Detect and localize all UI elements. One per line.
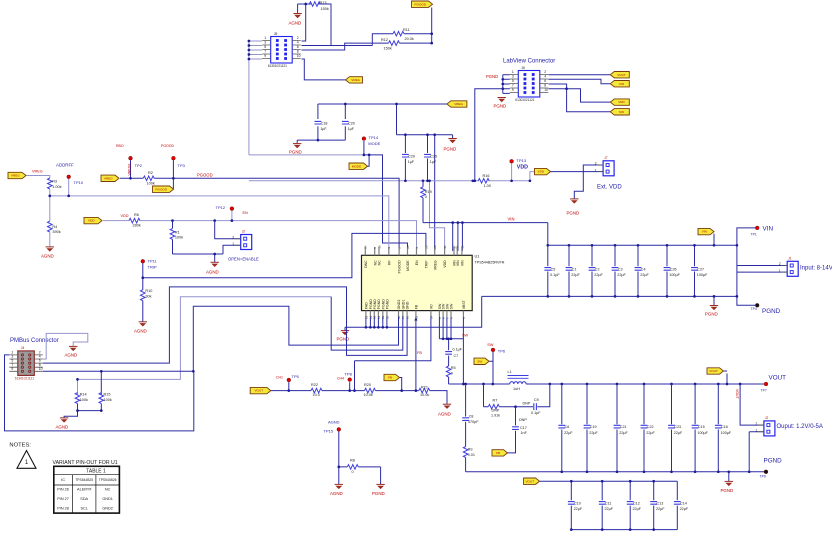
svg-text:0.1µF: 0.1µF bbox=[453, 348, 463, 352]
svg-text:PIN 27: PIN 27 bbox=[57, 497, 69, 501]
test point TP11 bbox=[141, 259, 145, 263]
svg-text:10.0k: 10.0k bbox=[364, 393, 373, 397]
resistor R15 bbox=[99, 393, 112, 404]
svg-text:DNP: DNP bbox=[492, 409, 500, 413]
svg-text:26: 26 bbox=[364, 245, 368, 249]
junction VDD pin riser bbox=[428, 179, 431, 182]
connector J1 input bbox=[779, 256, 799, 276]
svg-text:TP7: TP7 bbox=[761, 388, 767, 392]
svg-text:VIN: VIN bbox=[456, 260, 460, 266]
svg-text:Ext. VDD: Ext. VDD bbox=[597, 185, 622, 191]
svg-text:C16: C16 bbox=[721, 425, 728, 429]
capacitor C8 bbox=[462, 418, 469, 421]
svg-text:AGND: AGND bbox=[206, 269, 219, 274]
svg-text:MODE: MODE bbox=[368, 141, 380, 146]
svg-text:R20: R20 bbox=[364, 383, 371, 387]
wire J6 left PGND bus bbox=[503, 75, 510, 94]
wire TRIP line bbox=[143, 233, 426, 321]
resistor R7 bbox=[488, 404, 499, 409]
wire J6 pin2 to VOUT flag bbox=[549, 74, 611, 76]
flag VOUT output bbox=[707, 368, 724, 374]
junctions C10 row top bbox=[570, 480, 655, 483]
wire VDD flag to J7 bbox=[551, 165, 604, 199]
svg-text:VREG: VREG bbox=[11, 174, 20, 178]
ground PGND right of C25 bbox=[444, 139, 457, 152]
svg-text:C3: C3 bbox=[618, 268, 623, 272]
junctions J6 left bus bbox=[501, 78, 504, 90]
svg-text:Input: 8-14V: Input: 8-14V bbox=[800, 266, 832, 272]
svg-text:J4: J4 bbox=[21, 346, 25, 350]
wire TP15 R8 bbox=[339, 431, 381, 484]
svg-text:PGND: PGND bbox=[764, 458, 783, 465]
svg-text:10: 10 bbox=[377, 245, 381, 249]
svg-text:25: 25 bbox=[424, 245, 428, 249]
resistor R11 bbox=[393, 31, 404, 36]
svg-text:100k: 100k bbox=[80, 398, 88, 402]
flag VDD mid bbox=[535, 168, 551, 174]
wire VOUT rail bbox=[449, 371, 764, 384]
junction R7 C9 C17 bbox=[514, 405, 517, 408]
U1 bottom pin names and numbers bbox=[364, 299, 466, 319]
wire R11 R12 to PGOOD flag bbox=[302, 8, 432, 51]
connector J2 output bbox=[755, 416, 775, 436]
svg-text:10: 10 bbox=[385, 315, 389, 319]
svg-text:22µF: 22µF bbox=[619, 431, 628, 435]
capacitor C25 bbox=[424, 154, 437, 164]
svg-text:1µF: 1µF bbox=[320, 127, 327, 131]
svg-text:PGOOD: PGOOD bbox=[398, 260, 402, 274]
svg-text:J2: J2 bbox=[242, 230, 246, 234]
resistor R20 bbox=[365, 388, 376, 393]
wire J5 pin10 to VREG flag bbox=[302, 59, 346, 80]
svg-text:100k: 100k bbox=[175, 236, 183, 240]
svg-text:1µF: 1µF bbox=[430, 160, 437, 164]
svg-text:PGND: PGND bbox=[486, 74, 498, 79]
svg-text:1: 1 bbox=[779, 269, 781, 273]
svg-text:12: 12 bbox=[377, 315, 381, 319]
junction J6 wire cross bbox=[565, 87, 568, 90]
svg-text:VIN: VIN bbox=[702, 230, 707, 234]
svg-text:C8: C8 bbox=[469, 415, 474, 419]
svg-text:VBST: VBST bbox=[462, 299, 466, 309]
svg-text:SW: SW bbox=[450, 303, 454, 309]
svg-text:4: 4 bbox=[297, 41, 299, 45]
resistor R1 bbox=[170, 228, 183, 239]
test point TP12 bbox=[230, 207, 234, 211]
svg-text:10.0: 10.0 bbox=[313, 393, 320, 397]
svg-text:TP14: TP14 bbox=[369, 135, 379, 140]
connector J7 Ext VDD bbox=[595, 156, 615, 176]
wire output caps tops bbox=[562, 384, 719, 424]
svg-text:VDD: VDD bbox=[443, 260, 447, 268]
test point TP2 bbox=[129, 156, 133, 160]
capacitor C5 bbox=[544, 268, 560, 278]
svg-text:FB: FB bbox=[414, 304, 418, 309]
svg-text:7: 7 bbox=[512, 84, 514, 88]
svg-text:OPEN=ENABLE: OPEN=ENABLE bbox=[228, 256, 259, 261]
capacitor C9 bbox=[534, 403, 537, 410]
ground AGND under R21 bbox=[438, 404, 451, 416]
svg-text:R3: R3 bbox=[52, 180, 57, 184]
svg-text:VREG: VREG bbox=[104, 176, 113, 180]
flag VDD LabView bbox=[610, 99, 629, 105]
svg-text:J2: J2 bbox=[765, 416, 769, 420]
svg-text:PGND: PGND bbox=[705, 311, 718, 316]
ground PGND under C18 C20 bbox=[289, 144, 302, 155]
wire J5 left bus bbox=[249, 41, 262, 155]
resistor R14 bbox=[75, 393, 88, 404]
svg-text:R5: R5 bbox=[451, 366, 456, 370]
svg-text:VIN: VIN bbox=[763, 225, 774, 232]
svg-text:NC: NC bbox=[105, 488, 111, 492]
svg-text:TP9: TP9 bbox=[760, 475, 766, 479]
connector J5 61301021121 bbox=[262, 32, 301, 68]
svg-text:5: 5 bbox=[512, 79, 514, 83]
wire VREG rail y104 bbox=[297, 104, 452, 251]
svg-text:0: 0 bbox=[425, 195, 427, 199]
svg-text:R10: R10 bbox=[145, 289, 152, 293]
junctions PGOOD line bbox=[129, 177, 175, 180]
resistor R4 bbox=[48, 221, 61, 234]
wire VIN line bbox=[423, 223, 548, 251]
svg-text:20: 20 bbox=[433, 245, 437, 249]
svg-text:VARIANT PIN-OUT FOR U1: VARIANT PIN-OUT FOR U1 bbox=[53, 460, 118, 466]
resistor R21 bbox=[419, 388, 430, 393]
svg-text:VOUT: VOUT bbox=[525, 479, 534, 483]
ground PGND output bbox=[721, 481, 734, 492]
flag PGOOD top bbox=[412, 1, 433, 7]
wire MODE line dark part bbox=[364, 141, 408, 251]
svg-text:8: 8 bbox=[297, 50, 299, 54]
svg-text:C12: C12 bbox=[633, 502, 640, 506]
junctions C10 row bottom bbox=[570, 528, 655, 531]
svg-text:DNC: DNC bbox=[364, 260, 368, 268]
test point TP3 bbox=[172, 156, 176, 160]
svg-text:150k: 150k bbox=[321, 7, 329, 11]
svg-text:TPS544B25: TPS544B25 bbox=[75, 478, 93, 482]
svg-text:1.00k: 1.00k bbox=[52, 185, 61, 189]
resistor R8 bbox=[347, 465, 358, 470]
capacitor C13 bbox=[650, 502, 665, 512]
svg-text:J7: J7 bbox=[604, 156, 608, 160]
svg-text:22µF: 22µF bbox=[674, 431, 683, 435]
svg-text:PGND: PGND bbox=[377, 299, 381, 310]
capacitor C12 bbox=[627, 502, 642, 512]
test point TP9 bbox=[764, 470, 768, 474]
svg-text:R16: R16 bbox=[483, 174, 490, 178]
svg-text:8: 8 bbox=[544, 84, 546, 88]
svg-text:15: 15 bbox=[460, 245, 464, 249]
svg-text:R13: R13 bbox=[320, 1, 327, 5]
svg-text:RBO: RBO bbox=[116, 144, 124, 148]
wire PMBus AGND jog bbox=[43, 333, 88, 359]
svg-text:J1: J1 bbox=[788, 256, 792, 260]
test point TP8 bbox=[348, 378, 352, 382]
svg-text:R4: R4 bbox=[52, 225, 57, 229]
svg-text:30k: 30k bbox=[145, 294, 151, 298]
svg-text:C10: C10 bbox=[574, 502, 581, 506]
svg-text:PGOOD: PGOOD bbox=[156, 187, 168, 191]
svg-text:22µF: 22µF bbox=[564, 431, 573, 435]
svg-text:TP5: TP5 bbox=[292, 374, 300, 379]
svg-text:SDA: SDA bbox=[80, 497, 88, 501]
svg-text:1nF: 1nF bbox=[521, 431, 528, 435]
svg-text:VIN: VIN bbox=[619, 82, 624, 86]
wire EN line bbox=[103, 211, 417, 252]
svg-text:AGND: AGND bbox=[330, 491, 343, 496]
capacitor C20 bbox=[342, 121, 355, 131]
svg-text:1: 1 bbox=[232, 242, 234, 246]
junctions input caps bottom bbox=[546, 295, 738, 298]
svg-text:R22: R22 bbox=[311, 383, 318, 387]
svg-text:TP4: TP4 bbox=[751, 307, 757, 311]
svg-text:AGND: AGND bbox=[134, 328, 147, 333]
ground AGND top bbox=[289, 14, 302, 26]
svg-text:10: 10 bbox=[544, 88, 548, 92]
resistor R13 bbox=[309, 2, 320, 7]
svg-text:R9: R9 bbox=[468, 448, 473, 452]
ground PGND input caps bbox=[705, 306, 718, 317]
svg-text:AGND: AGND bbox=[41, 253, 54, 258]
ground PGND Ext VDD bbox=[567, 199, 580, 215]
svg-text:C6: C6 bbox=[565, 425, 570, 429]
junctions PGND pins bbox=[365, 326, 389, 329]
svg-text:3: 3 bbox=[264, 41, 266, 45]
svg-text:R2: R2 bbox=[148, 171, 153, 175]
svg-text:2: 2 bbox=[755, 422, 757, 426]
capacitor C11 bbox=[599, 502, 614, 512]
svg-text:1.00: 1.00 bbox=[484, 184, 491, 188]
wire VDD rail bbox=[249, 164, 535, 181]
wire ADDR line bbox=[27, 176, 389, 252]
svg-text:FB: FB bbox=[496, 451, 500, 455]
svg-text:TP12: TP12 bbox=[216, 205, 226, 210]
svg-text:9: 9 bbox=[264, 54, 266, 58]
svg-text:VDD: VDD bbox=[121, 214, 129, 218]
svg-text:TABLE 1: TABLE 1 bbox=[86, 468, 106, 474]
capacitor C27 bbox=[691, 268, 708, 278]
svg-text:2: 2 bbox=[297, 36, 299, 40]
wire J6 pin7 to VDD rail bbox=[475, 89, 503, 181]
svg-text:PGND: PGND bbox=[721, 488, 734, 493]
wire snubber R7 C9 bbox=[484, 384, 550, 407]
capacitor C14 bbox=[674, 502, 689, 512]
svg-text:C21: C21 bbox=[620, 425, 627, 429]
resistor R19 bbox=[421, 187, 432, 199]
wire input top bus bbox=[345, 223, 787, 331]
junctions ADDR line bbox=[48, 195, 70, 198]
svg-text:C13: C13 bbox=[657, 502, 664, 506]
svg-text:C5: C5 bbox=[551, 268, 556, 272]
svg-text:C4: C4 bbox=[641, 268, 646, 272]
svg-text:PGND: PGND bbox=[385, 299, 389, 310]
svg-text:C27: C27 bbox=[697, 268, 704, 272]
ground AGND under R14 bbox=[56, 418, 69, 429]
junctions R14 R15 bottom bbox=[76, 409, 103, 412]
svg-text:FB: FB bbox=[417, 351, 422, 355]
capacitor C26 bbox=[664, 268, 681, 278]
svg-text:EN: EN bbox=[415, 260, 419, 265]
wire PMBus ALERT loop bbox=[43, 287, 407, 363]
svg-text:1.91k: 1.91k bbox=[491, 414, 500, 418]
svg-text:ALERT#: ALERT# bbox=[77, 488, 92, 492]
svg-text:22µF: 22µF bbox=[633, 507, 642, 511]
svg-text:R11: R11 bbox=[403, 28, 410, 32]
svg-text:22µF: 22µF bbox=[656, 507, 665, 511]
svg-text:VOUT: VOUT bbox=[769, 375, 787, 382]
svg-text:CH4: CH4 bbox=[337, 376, 344, 380]
test point TP10 bbox=[67, 175, 71, 179]
ground AGND under R10 bbox=[134, 322, 147, 334]
wire J6 pin6 to SW flag bbox=[549, 84, 611, 112]
svg-text:VOUT: VOUT bbox=[254, 389, 263, 393]
svg-text:LabView Connector: LabView Connector bbox=[503, 59, 555, 65]
U1 top pin stubs bbox=[365, 247, 462, 255]
wire R14 R15 bottoms bbox=[64, 404, 101, 418]
ground AGND under J2 bbox=[206, 262, 219, 274]
resistor R22 bbox=[311, 388, 322, 393]
svg-text:10: 10 bbox=[297, 54, 301, 58]
svg-text:0: 0 bbox=[352, 470, 354, 474]
svg-text:R6: R6 bbox=[134, 213, 139, 217]
wire PMBus SCL loop bbox=[43, 306, 399, 395]
svg-text:PGND: PGND bbox=[567, 210, 580, 215]
capacitor C17 bbox=[512, 427, 519, 430]
svg-text:AGND: AGND bbox=[289, 20, 302, 25]
svg-text:10.0k: 10.0k bbox=[420, 393, 429, 397]
svg-text:TP6: TP6 bbox=[498, 349, 506, 354]
svg-text:1: 1 bbox=[755, 428, 757, 432]
svg-text:MODE: MODE bbox=[352, 164, 361, 168]
ground PGND under IC bbox=[337, 331, 350, 342]
svg-text:150k: 150k bbox=[384, 47, 392, 51]
flag VREG mid bbox=[447, 101, 467, 107]
test point TP15 bbox=[337, 428, 341, 432]
wire PMBus outer loop bbox=[5, 355, 194, 431]
wire FB divider line bbox=[271, 317, 447, 404]
junctions EN line bbox=[171, 219, 233, 222]
capacitor C29 bbox=[402, 154, 415, 164]
capacitor C10 bbox=[568, 502, 583, 512]
svg-text:390k: 390k bbox=[52, 230, 60, 234]
svg-text:DNP: DNP bbox=[523, 401, 531, 405]
test point TP6 bbox=[491, 348, 495, 352]
svg-text:TP11: TP11 bbox=[148, 259, 158, 264]
svg-text:SW: SW bbox=[477, 359, 482, 363]
svg-text:7: 7 bbox=[264, 50, 266, 54]
svg-text:5: 5 bbox=[264, 45, 266, 49]
svg-text:ADDRFF: ADDRFF bbox=[56, 163, 74, 168]
junctions VDD rail bbox=[404, 179, 531, 182]
wire R19 connections bbox=[422, 181, 424, 223]
svg-text:22µF: 22µF bbox=[640, 273, 649, 277]
svg-text:VO: VO bbox=[429, 304, 433, 309]
svg-text:AGND: AGND bbox=[328, 419, 340, 424]
svg-text:VREG: VREG bbox=[351, 78, 360, 82]
capacitor C22 bbox=[641, 425, 656, 435]
svg-text:VREG3: VREG3 bbox=[127, 164, 131, 176]
svg-text:0: 0 bbox=[451, 371, 453, 375]
svg-text:100µF: 100µF bbox=[721, 431, 732, 435]
svg-text:PAD: PAD bbox=[364, 302, 368, 309]
svg-text:SW: SW bbox=[462, 334, 469, 338]
svg-text:R21: R21 bbox=[421, 385, 428, 389]
capacitor C15 bbox=[692, 425, 709, 435]
svg-text:FB: FB bbox=[388, 376, 392, 380]
svg-text:GND: GND bbox=[406, 301, 410, 309]
svg-text:VIN: VIN bbox=[508, 217, 515, 222]
svg-text:R19: R19 bbox=[425, 190, 432, 194]
wire SW bus and VBST bbox=[439, 317, 493, 384]
wire J6 pin8 to VDD flag bbox=[549, 89, 611, 102]
junction TP15 bbox=[337, 466, 340, 469]
flag MODE bbox=[349, 163, 368, 169]
svg-text:22µF: 22µF bbox=[589, 431, 598, 435]
svg-text:2: 2 bbox=[544, 70, 546, 74]
svg-text:AGND: AGND bbox=[65, 352, 78, 357]
svg-text:VIN: VIN bbox=[460, 260, 464, 266]
test point TP13 bbox=[510, 159, 514, 163]
svg-text:EN: EN bbox=[243, 211, 249, 215]
junctions MODE line bbox=[363, 154, 371, 157]
svg-text:AGND: AGND bbox=[438, 411, 451, 416]
flag VOUT LabView bbox=[610, 72, 629, 78]
svg-text:6: 6 bbox=[297, 45, 299, 49]
note triangle 1 bbox=[17, 451, 36, 469]
svg-text:C22: C22 bbox=[647, 425, 654, 429]
svg-text:16: 16 bbox=[456, 245, 460, 249]
resistor R16 bbox=[478, 179, 489, 184]
svg-text:PGND: PGND bbox=[444, 146, 457, 151]
wire R13 to AGND and J5 pin2 bbox=[298, 4, 331, 46]
svg-text:U1: U1 bbox=[475, 254, 480, 259]
svg-text:0.01: 0.01 bbox=[468, 453, 475, 457]
ground AGND under R4 bbox=[41, 247, 54, 258]
wire PMBus SDA loop light part bbox=[78, 297, 332, 380]
svg-text:PGND: PGND bbox=[494, 103, 507, 108]
svg-text:GND1: GND1 bbox=[102, 497, 113, 501]
svg-text:22µF: 22µF bbox=[574, 507, 583, 511]
flag VREG at J5 bbox=[346, 77, 363, 83]
junctions J5 left bus bbox=[248, 40, 251, 61]
ground PGND under J6 bbox=[494, 98, 507, 109]
wire R14 riser bbox=[77, 379, 79, 395]
svg-text:22µF: 22µF bbox=[571, 273, 580, 277]
svg-text:PGOOD: PGOOD bbox=[197, 172, 213, 177]
svg-text:C18: C18 bbox=[321, 121, 328, 125]
svg-text:GND2: GND2 bbox=[102, 507, 113, 511]
svg-text:1uH: 1uH bbox=[513, 387, 520, 391]
U1 bottom pin stubs bbox=[366, 311, 464, 317]
svg-text:PIN 28: PIN 28 bbox=[57, 507, 69, 511]
junction R13 bbox=[304, 3, 307, 6]
svg-text:C20: C20 bbox=[348, 121, 355, 125]
svg-text:2: 2 bbox=[595, 162, 597, 166]
svg-text:TP8: TP8 bbox=[345, 371, 353, 376]
wire MODE line light part bbox=[249, 154, 364, 156]
svg-text:280k: 280k bbox=[133, 224, 141, 228]
svg-text:VDD: VDD bbox=[517, 164, 528, 170]
svg-text:20.0k: 20.0k bbox=[405, 37, 414, 41]
connector J4 PMBus 61301021121 bbox=[9, 346, 43, 380]
resistor R3 bbox=[48, 178, 62, 189]
svg-text:TRIP: TRIP bbox=[424, 260, 428, 269]
svg-text:R7: R7 bbox=[493, 399, 498, 403]
flag VREG far left bbox=[8, 172, 26, 178]
flag SW near TP6 bbox=[474, 358, 489, 364]
junction R1 AGND bbox=[213, 253, 216, 256]
svg-text:VREG: VREG bbox=[433, 260, 437, 270]
